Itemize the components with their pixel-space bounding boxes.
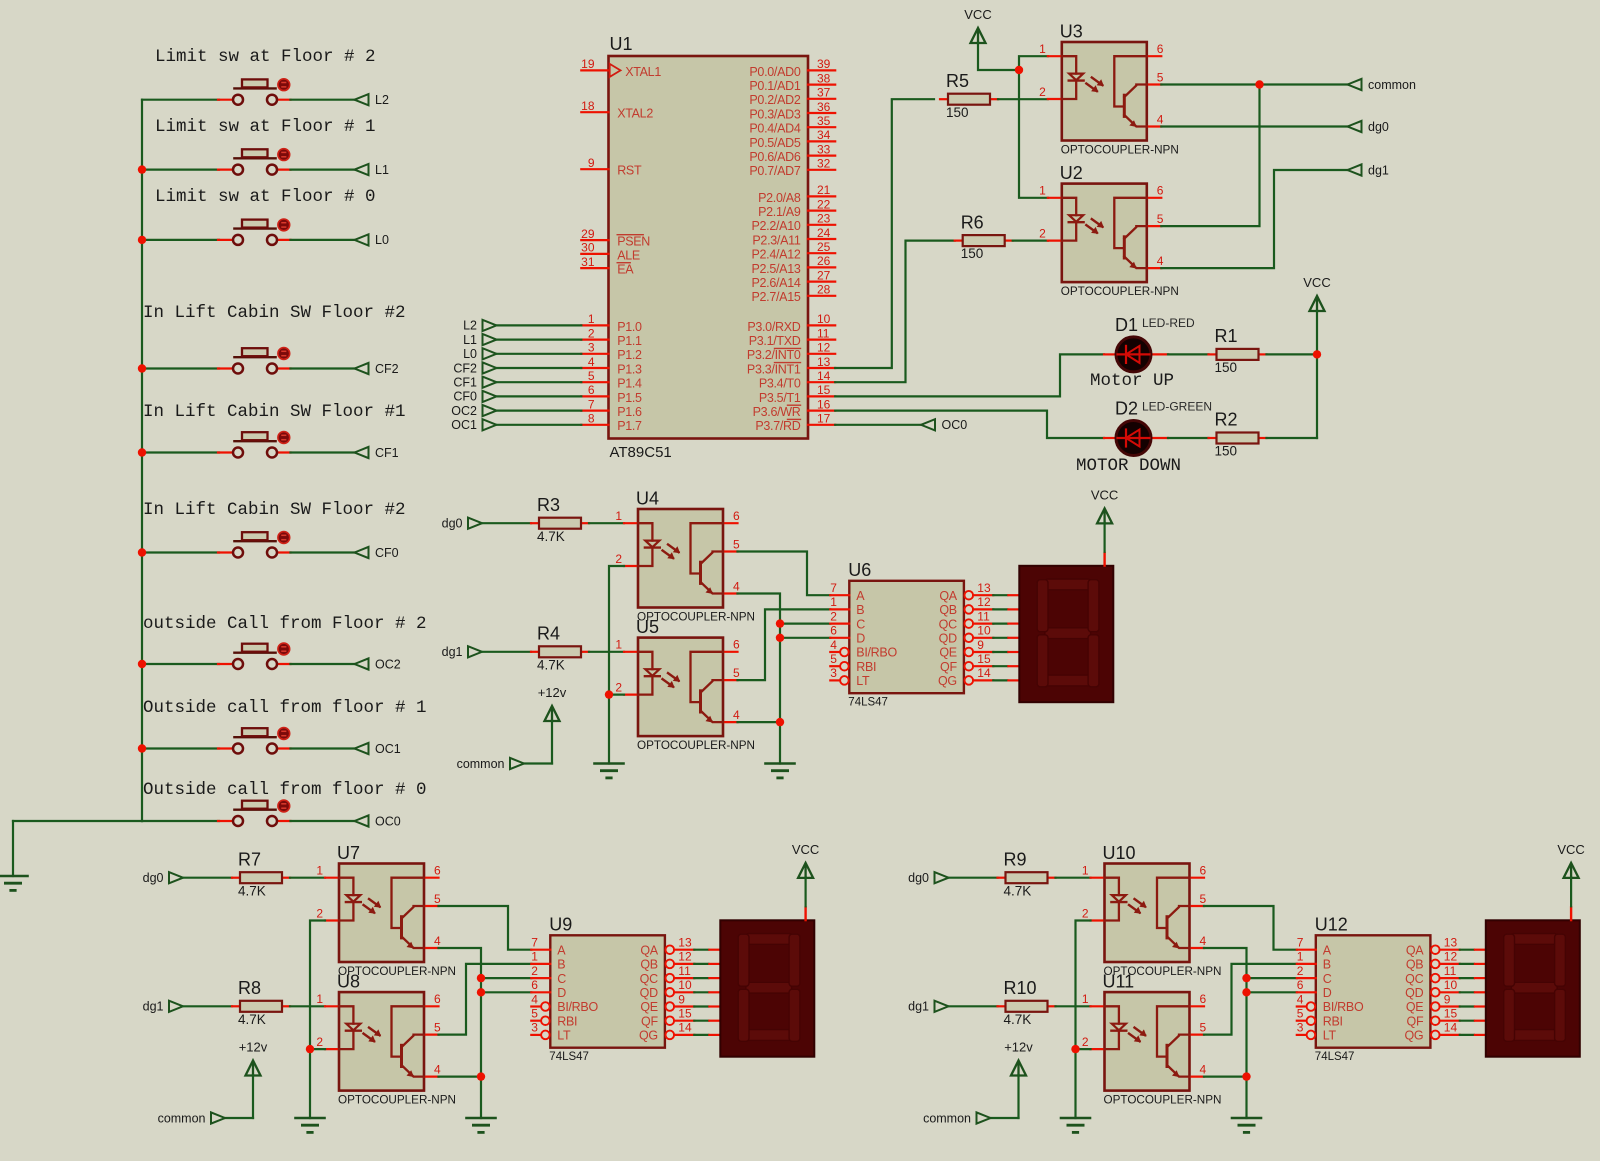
svg-text:39: 39 bbox=[817, 57, 831, 71]
svg-text:6: 6 bbox=[1297, 978, 1304, 992]
svg-text:7: 7 bbox=[531, 936, 538, 950]
U5 pin 5 (collector) bbox=[723, 666, 740, 680]
wire switch CF2 to terminal bbox=[291, 367, 355, 369]
svg-text:33: 33 bbox=[817, 142, 831, 156]
U10 internal LED and phototransistor bbox=[1105, 878, 1190, 949]
junction U11 pin2 bbox=[1071, 1045, 1079, 1053]
svg-text:QA: QA bbox=[640, 943, 658, 957]
wire bus to switch OC1 bbox=[142, 747, 219, 749]
U1 pin 4 (P1.3) bbox=[581, 355, 642, 377]
svg-text:19: 19 bbox=[581, 57, 595, 71]
svg-text:P3.7/RD: P3.7/RD bbox=[755, 419, 800, 433]
resistor R3 value 4.7K bbox=[531, 495, 589, 544]
svg-text:9: 9 bbox=[678, 992, 685, 1006]
wire U12 QB to display bbox=[1460, 963, 1488, 965]
terminal OC0 (P3.7) bbox=[921, 418, 967, 432]
switch OC0 (push button) bbox=[218, 800, 291, 826]
junction common bbox=[1255, 80, 1263, 88]
svg-text:P0.6/AD6: P0.6/AD6 bbox=[749, 150, 800, 164]
svg-text:1: 1 bbox=[615, 509, 622, 523]
junction U5 pin2 bbox=[605, 690, 613, 698]
svg-text:In Lift Cabin SW Floor #1: In Lift Cabin SW Floor #1 bbox=[143, 402, 406, 422]
svg-text:P1.2: P1.2 bbox=[617, 348, 642, 362]
ground (mid transistor side) bbox=[766, 764, 795, 778]
power VCC (mid display) bbox=[1091, 487, 1118, 523]
svg-text:9: 9 bbox=[977, 638, 984, 652]
terminal L1 (to P1.1) bbox=[463, 333, 496, 347]
svg-text:LT: LT bbox=[1323, 1029, 1337, 1043]
svg-text:OC2: OC2 bbox=[375, 657, 401, 671]
svg-text:QE: QE bbox=[939, 646, 956, 660]
optocoupler U3 (OPTOCOUPLER-NPN) body bbox=[1060, 22, 1179, 157]
wire VCC to display bbox=[1570, 877, 1572, 906]
svg-text:2: 2 bbox=[588, 326, 595, 340]
svg-text:Motor UP: Motor UP bbox=[1090, 371, 1174, 391]
U4 pin 5 (collector) bbox=[723, 537, 740, 551]
U2 pin 5 (collector) bbox=[1147, 212, 1164, 226]
svg-text:P1.6: P1.6 bbox=[617, 405, 642, 419]
svg-text:QA: QA bbox=[939, 589, 957, 603]
svg-text:14: 14 bbox=[977, 666, 991, 680]
wire ground riser to U6 C bbox=[780, 622, 830, 624]
U1 pin 9 (RST) bbox=[581, 156, 642, 178]
svg-text:34: 34 bbox=[817, 128, 831, 142]
U2 internal LED and phototransistor bbox=[1062, 198, 1147, 269]
svg-text:9: 9 bbox=[1444, 992, 1451, 1006]
svg-text:5: 5 bbox=[434, 892, 441, 906]
switch CF1 (push button) bbox=[218, 432, 291, 458]
wire R2 to VCC riser bbox=[1267, 437, 1318, 439]
svg-text:5: 5 bbox=[434, 1020, 441, 1034]
wire CF0 to U1 P1.5 bbox=[497, 395, 582, 397]
U1 pin 25 (P2.4/A12) bbox=[751, 240, 835, 262]
svg-text:D2: D2 bbox=[1115, 399, 1138, 419]
optocoupler U4 (OPTOCOUPLER-NPN) body bbox=[636, 489, 755, 624]
wire ground riser to U9 D bbox=[481, 991, 531, 993]
svg-text:P3.6/WR: P3.6/WR bbox=[753, 405, 801, 419]
svg-text:2: 2 bbox=[830, 609, 837, 623]
svg-text:U11: U11 bbox=[1103, 972, 1135, 992]
terminal CF0 bbox=[355, 546, 399, 560]
svg-text:XTAL1: XTAL1 bbox=[625, 65, 661, 79]
svg-text:14: 14 bbox=[1444, 1021, 1458, 1035]
svg-text:P0.0/AD0: P0.0/AD0 bbox=[749, 65, 800, 79]
junction D bbox=[477, 988, 485, 996]
U1 pin 21 (P2.0/A8) bbox=[758, 183, 835, 205]
power +12v (bottom-left) bbox=[239, 1040, 268, 1076]
label "In Lift Cabin SW Floor #2" bbox=[143, 303, 406, 323]
U7 pin 2 (cathode) bbox=[316, 906, 339, 920]
terminal dg1 (bottom-right) bbox=[908, 1000, 948, 1014]
wire U5 pin5 to U6 B bbox=[738, 609, 831, 680]
U10 pin 5 (collector) bbox=[1190, 892, 1207, 906]
wire U9 QB to display bbox=[694, 963, 722, 965]
terminal OC2 (to P1.6) bbox=[451, 404, 496, 418]
svg-text:10: 10 bbox=[678, 978, 692, 992]
7-segment display display (bottom-right) bbox=[1486, 920, 1580, 1056]
wire bus to switch CF1 bbox=[142, 451, 219, 453]
terminal common (bottom-left) bbox=[158, 1111, 225, 1125]
U9 pin 10 (QD) bbox=[640, 978, 695, 1000]
wire L2 to U1 P1.0 bbox=[497, 324, 582, 326]
wire U3 pin4 to dg0 bbox=[1161, 125, 1347, 127]
wire U12 QE to display bbox=[1460, 1005, 1488, 1007]
resistor R10 value 4.7K bbox=[998, 978, 1056, 1027]
svg-text:5: 5 bbox=[1157, 70, 1164, 84]
svg-text:L0: L0 bbox=[463, 347, 477, 361]
svg-text:1: 1 bbox=[1082, 864, 1089, 878]
wire ground riser to U6 D bbox=[780, 637, 830, 639]
wire D2 to R2 bbox=[1168, 437, 1209, 439]
svg-text:U8: U8 bbox=[337, 972, 360, 992]
svg-text:R6: R6 bbox=[961, 212, 984, 232]
resistor R4 value 4.7K bbox=[531, 624, 589, 673]
switch OC1 (push button) bbox=[218, 728, 291, 754]
U9 pin 5 (RBI) bbox=[531, 1007, 577, 1029]
U10 pin 6 (base) bbox=[1190, 864, 1207, 878]
svg-text:ALE: ALE bbox=[617, 248, 640, 262]
svg-text:OPTOCOUPLER-NPN: OPTOCOUPLER-NPN bbox=[1104, 1094, 1222, 1107]
svg-text:1: 1 bbox=[830, 595, 837, 609]
svg-text:15: 15 bbox=[817, 383, 831, 397]
terminal common (top) bbox=[1348, 78, 1416, 92]
wire U6 QC to display bbox=[993, 622, 1021, 624]
wire dg0 to R9 bbox=[949, 877, 998, 879]
svg-text:VCC: VCC bbox=[964, 7, 991, 22]
svg-text:QE: QE bbox=[1406, 1000, 1423, 1014]
U8 pin 1 (anode) bbox=[316, 992, 339, 1006]
svg-text:1: 1 bbox=[1039, 184, 1046, 198]
optocoupler U5 (OPTOCOUPLER-NPN) body bbox=[636, 617, 755, 752]
svg-text:P3.5/T1: P3.5/T1 bbox=[759, 391, 801, 405]
wire U8 pin4 to ground riser bbox=[439, 1075, 482, 1077]
wire bus to switch L2 bbox=[142, 99, 219, 101]
wire U4 pin4 to ground riser bbox=[738, 594, 781, 764]
wire U1 P3.7 to OC0 bbox=[835, 424, 921, 426]
U1 pin 7 (P1.6) bbox=[581, 397, 642, 419]
wire U12 QD to display bbox=[1460, 991, 1488, 993]
terminal CF1 bbox=[355, 446, 399, 460]
svg-text:QG: QG bbox=[938, 674, 957, 688]
svg-text:6: 6 bbox=[1200, 864, 1207, 878]
svg-text:R8: R8 bbox=[238, 978, 261, 998]
wire U8 pin5 to U9 B bbox=[439, 964, 532, 1035]
power VCC (top) bbox=[964, 7, 991, 43]
svg-text:11: 11 bbox=[817, 326, 830, 340]
wire U10 pin4 to ground riser bbox=[1204, 948, 1247, 1118]
U9 pin 13 (QA) bbox=[640, 936, 694, 958]
svg-text:5: 5 bbox=[733, 537, 740, 551]
wire VCC riser (motor) bbox=[1316, 311, 1318, 439]
svg-text:L1: L1 bbox=[463, 333, 477, 347]
U12 pin 5 (RBI) bbox=[1297, 1007, 1343, 1029]
svg-text:P2.0/A8: P2.0/A8 bbox=[758, 191, 801, 205]
svg-text:14: 14 bbox=[817, 369, 831, 383]
svg-text:24: 24 bbox=[817, 226, 831, 240]
svg-text:L2: L2 bbox=[463, 319, 477, 333]
U5 pin 2 (cathode) bbox=[615, 680, 638, 694]
svg-text:VCC: VCC bbox=[1091, 487, 1118, 502]
svg-text:5: 5 bbox=[1297, 1007, 1304, 1021]
wire U9 QF to display bbox=[694, 1020, 722, 1022]
svg-text:P0.1/AD1: P0.1/AD1 bbox=[749, 79, 800, 93]
wire U10 pin2 to ground bbox=[1076, 921, 1091, 1119]
U1 pin 34 (P0.5/AD5) bbox=[749, 128, 835, 150]
wire L0 to U1 P1.2 bbox=[497, 353, 582, 355]
U1 pin 13 (P3.3/INT1) bbox=[747, 355, 835, 377]
svg-text:15: 15 bbox=[678, 1007, 692, 1021]
wire switch OC1 to terminal bbox=[291, 747, 355, 749]
wire U12 QA to display bbox=[1460, 949, 1488, 951]
wire common to +12v bbox=[524, 762, 552, 764]
wire VCC to display bbox=[1103, 523, 1105, 552]
U6 pin 3 (LT) bbox=[830, 666, 870, 688]
U9 pin 6 (D) bbox=[531, 978, 566, 1000]
U1 pin 16 (P3.6/WR) bbox=[753, 397, 836, 419]
svg-text:P1.1: P1.1 bbox=[617, 334, 642, 348]
svg-text:outside Call from Floor # 2: outside Call from Floor # 2 bbox=[143, 614, 427, 634]
junction U8 pin4 bbox=[477, 1072, 485, 1080]
label "outside Call from Floor # 2" bbox=[143, 614, 427, 634]
label "Limit sw at Floor # 0" bbox=[155, 187, 376, 207]
label "Limit sw at Floor # 2" bbox=[155, 47, 376, 67]
wire ground riser to U12 D bbox=[1247, 991, 1297, 993]
svg-text:AT89C51: AT89C51 bbox=[610, 444, 672, 461]
wire dg1 to R10 bbox=[949, 1005, 998, 1007]
wire bus to switch CF2 bbox=[142, 367, 219, 369]
svg-text:6: 6 bbox=[733, 638, 740, 652]
ground (bottom-left transistor side) bbox=[467, 1118, 496, 1132]
svg-text:29: 29 bbox=[581, 227, 595, 241]
svg-text:In Lift Cabin SW Floor #2: In Lift Cabin SW Floor #2 bbox=[143, 303, 406, 323]
switch L0 (push button) bbox=[218, 219, 291, 245]
power VCC (bottom-right display) bbox=[1557, 842, 1584, 878]
wire junction to U2 pin1 bbox=[1019, 70, 1048, 198]
svg-text:37: 37 bbox=[817, 86, 831, 100]
svg-text:R2: R2 bbox=[1215, 410, 1238, 430]
svg-text:4: 4 bbox=[1200, 934, 1207, 948]
svg-text:common: common bbox=[457, 757, 505, 771]
wire switch L0 to terminal bbox=[291, 239, 355, 241]
ground (bottom-right LED side) bbox=[1061, 1118, 1090, 1132]
svg-text:P2.3/A11: P2.3/A11 bbox=[752, 233, 800, 247]
svg-text:4: 4 bbox=[531, 992, 538, 1006]
svg-text:Outside call from floor # 0: Outside call from floor # 0 bbox=[143, 780, 427, 800]
svg-text:QD: QD bbox=[1405, 986, 1423, 1000]
wire U4 pin5 to U6 A bbox=[738, 552, 831, 596]
wire U7 pin2 to ground bbox=[310, 921, 325, 1119]
U1 pin 38 (P0.1/AD1) bbox=[749, 71, 835, 93]
wire ground drop bbox=[12, 821, 14, 876]
wire bus to ground run bbox=[13, 820, 142, 822]
U12 pin 7 (A) bbox=[1297, 936, 1332, 958]
svg-text:4: 4 bbox=[434, 934, 441, 948]
svg-text:5: 5 bbox=[733, 666, 740, 680]
U6 pin 14 (QG) bbox=[938, 666, 993, 688]
U1 pin 35 (P0.4/AD4) bbox=[749, 114, 835, 136]
U1 pin 37 (P0.2/AD2) bbox=[749, 86, 835, 108]
7-segment display display (bottom-left) bbox=[720, 920, 814, 1056]
svg-text:12: 12 bbox=[1444, 950, 1458, 964]
power +12v (bottom-right) bbox=[1004, 1040, 1033, 1076]
svg-text:21: 21 bbox=[817, 183, 831, 197]
terminal L0 (to P1.2) bbox=[463, 347, 496, 361]
terminal dg0 (bottom-left) bbox=[143, 871, 183, 885]
resistor R7 value 4.7K bbox=[232, 849, 290, 898]
junction VCC feed bbox=[1015, 66, 1023, 74]
svg-text:13: 13 bbox=[678, 936, 692, 950]
svg-text:dg1: dg1 bbox=[908, 1000, 929, 1014]
svg-text:38: 38 bbox=[817, 71, 831, 85]
ground (bottom-left LED side) bbox=[296, 1118, 325, 1132]
terminal dg1 (mid) bbox=[442, 645, 482, 659]
resistor R6 value 150 bbox=[955, 212, 1013, 261]
wire D1 to R1 bbox=[1168, 353, 1209, 355]
U7 pin 5 (collector) bbox=[424, 892, 441, 906]
svg-text:P2.2/A10: P2.2/A10 bbox=[751, 219, 800, 233]
svg-text:In Lift Cabin SW Floor #2: In Lift Cabin SW Floor #2 bbox=[143, 500, 406, 520]
svg-text:P0.4/AD4: P0.4/AD4 bbox=[749, 122, 800, 136]
wire U11 pin5 to U12 B bbox=[1204, 964, 1297, 1035]
wire VCC to junction bbox=[978, 43, 1019, 71]
junction bus/CF2 bbox=[138, 364, 146, 372]
svg-text:6: 6 bbox=[733, 509, 740, 523]
svg-text:15: 15 bbox=[977, 652, 991, 666]
label "Limit sw at Floor # 1" bbox=[155, 117, 376, 137]
svg-text:7: 7 bbox=[588, 397, 595, 411]
svg-text:12: 12 bbox=[977, 595, 991, 609]
terminal dg0 (mid) bbox=[442, 517, 482, 531]
wire dg1 to R8 bbox=[183, 1005, 232, 1007]
svg-text:R1: R1 bbox=[1215, 326, 1238, 346]
svg-text:P3.0/RXD: P3.0/RXD bbox=[747, 320, 800, 334]
wire U7 pin5 to U9 A bbox=[439, 906, 532, 950]
svg-text:7: 7 bbox=[830, 581, 837, 595]
wire R10 to U11 pin1 bbox=[1056, 1005, 1091, 1007]
svg-text:26: 26 bbox=[817, 254, 831, 268]
display VCC pin (bottom-right) bbox=[1570, 906, 1572, 921]
svg-text:11: 11 bbox=[977, 609, 990, 623]
U7 pin 4 (emitter) bbox=[424, 934, 441, 948]
label "Motor UP" bbox=[1090, 371, 1174, 391]
svg-text:QA: QA bbox=[1406, 943, 1424, 957]
terminal OC1 (to P1.7) bbox=[451, 418, 496, 432]
svg-text:3: 3 bbox=[588, 341, 595, 355]
LED D2 (LED-GREEN) bbox=[1104, 399, 1212, 456]
svg-text:18: 18 bbox=[581, 99, 595, 113]
svg-text:P3.4/T0: P3.4/T0 bbox=[759, 377, 801, 391]
switch OC2 (push button) bbox=[218, 643, 291, 669]
U4 internal LED and phototransistor bbox=[638, 523, 723, 594]
svg-text:1: 1 bbox=[316, 992, 323, 1006]
wire U2 pin4 to dg1 bbox=[1161, 170, 1347, 268]
wire U12 QC to display bbox=[1460, 977, 1488, 979]
wire OC1 to U1 P1.7 bbox=[497, 424, 582, 426]
svg-text:dg0: dg0 bbox=[143, 871, 164, 885]
svg-text:RBI: RBI bbox=[1323, 1014, 1343, 1028]
svg-text:QD: QD bbox=[640, 986, 658, 1000]
svg-text:U9: U9 bbox=[549, 914, 572, 934]
wire U3 pin5 to common junction bbox=[1161, 83, 1259, 85]
svg-text:LED-RED: LED-RED bbox=[1142, 316, 1195, 330]
wire bus to switch L0 bbox=[142, 239, 219, 241]
wire bus to switch CF0 bbox=[142, 551, 219, 553]
svg-text:common: common bbox=[158, 1111, 206, 1125]
U1 pin 26 (P2.5/A13) bbox=[751, 254, 835, 276]
svg-text:13: 13 bbox=[817, 355, 831, 369]
svg-text:10: 10 bbox=[1444, 978, 1458, 992]
svg-text:22: 22 bbox=[817, 197, 831, 211]
U11 pin 4 (emitter) bbox=[1190, 1062, 1207, 1076]
svg-text:VCC: VCC bbox=[1303, 275, 1330, 290]
U9 pin 1 (B) bbox=[531, 950, 565, 972]
wire U9 QC to display bbox=[694, 977, 722, 979]
svg-text:2: 2 bbox=[615, 552, 622, 566]
svg-text:QC: QC bbox=[1405, 972, 1423, 986]
U12 pin 13 (QA) bbox=[1406, 936, 1460, 958]
U1 pin 3 (P1.2) bbox=[581, 341, 642, 363]
svg-text:+12v: +12v bbox=[239, 1040, 268, 1055]
svg-text:5: 5 bbox=[830, 652, 837, 666]
svg-text:QE: QE bbox=[640, 1000, 657, 1014]
svg-text:23: 23 bbox=[817, 212, 831, 226]
svg-text:QF: QF bbox=[641, 1014, 658, 1028]
wire R8 to U8 pin1 bbox=[290, 1005, 325, 1007]
svg-text:L1: L1 bbox=[375, 163, 389, 177]
svg-text:4: 4 bbox=[1157, 112, 1164, 126]
svg-text:R7: R7 bbox=[238, 849, 261, 869]
svg-text:BI/RBO: BI/RBO bbox=[1323, 1000, 1364, 1014]
svg-text:17: 17 bbox=[817, 412, 831, 426]
wire switch OC0 to terminal bbox=[291, 820, 355, 822]
U11 pin 2 (cathode) bbox=[1082, 1035, 1105, 1049]
U12 pin 12 (QB) bbox=[1406, 950, 1460, 972]
svg-text:OPTOCOUPLER-NPN: OPTOCOUPLER-NPN bbox=[1061, 285, 1179, 298]
U1 pin 30 (ALE) bbox=[581, 241, 640, 263]
svg-text:2: 2 bbox=[316, 1035, 323, 1049]
U1 pin 24 (P2.3/A11) bbox=[752, 226, 835, 248]
terminal common (mid) bbox=[457, 757, 524, 771]
U6 pin 9 (QE) bbox=[939, 638, 993, 660]
svg-text:CF2: CF2 bbox=[375, 362, 399, 376]
svg-text:5: 5 bbox=[1200, 892, 1207, 906]
svg-text:5: 5 bbox=[1200, 1020, 1207, 1034]
svg-text:P1.4: P1.4 bbox=[617, 377, 642, 391]
svg-text:16: 16 bbox=[817, 397, 831, 411]
terminal L2 bbox=[355, 93, 389, 107]
svg-text:2: 2 bbox=[1082, 1035, 1089, 1049]
junction bus/OC1 bbox=[138, 744, 146, 752]
svg-text:P2.5/A13: P2.5/A13 bbox=[751, 262, 800, 276]
svg-text:15: 15 bbox=[1444, 1007, 1458, 1021]
U6 pin 13 (QA) bbox=[939, 581, 993, 603]
junction bus/CF0 bbox=[138, 548, 146, 556]
svg-text:R5: R5 bbox=[946, 71, 969, 91]
U4 pin 4 (emitter) bbox=[723, 579, 740, 593]
U6 pin 2 (C) bbox=[830, 609, 865, 631]
wire U5 pin4 to ground riser bbox=[738, 721, 781, 723]
power VCC (motor) bbox=[1303, 275, 1330, 311]
svg-text:2: 2 bbox=[1297, 964, 1304, 978]
U12 pin 15 (QF) bbox=[1407, 1007, 1460, 1029]
svg-text:14: 14 bbox=[678, 1021, 692, 1035]
junction U8 pin2 bbox=[306, 1045, 314, 1053]
svg-text:PSEN: PSEN bbox=[617, 235, 650, 249]
resistor R1 value 150 bbox=[1209, 326, 1267, 375]
junction bus/OC2 bbox=[138, 660, 146, 668]
U1 pin 23 (P2.2/A10) bbox=[751, 212, 835, 234]
svg-text:6: 6 bbox=[1157, 184, 1164, 198]
